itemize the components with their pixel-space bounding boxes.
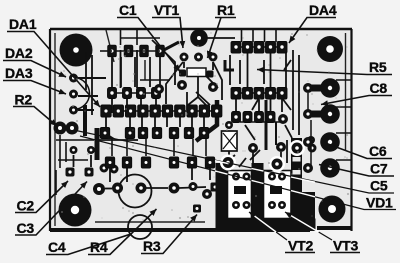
- label DA1: [7, 16, 100, 107]
- pads row E: [100, 128, 208, 139]
- svg-text:VD1: VD1: [366, 195, 393, 211]
- regulator DA1 TO-92 outline: [74, 78, 90, 110]
- wire mid verticals: [86, 52, 287, 163]
- svg-text:C4: C4: [48, 239, 66, 255]
- label DA2: [3, 45, 66, 77]
- svg-text:DA4: DA4: [309, 2, 337, 18]
- svg-text:C6: C6: [369, 143, 387, 159]
- svg-text:C7: C7: [370, 161, 388, 177]
- svg-text:C5: C5: [370, 178, 388, 194]
- scan speckle: [61, 32, 349, 221]
- IC DA4 pads row top: [231, 42, 287, 54]
- label C3: [15, 182, 87, 237]
- capacitor C4 circle at bottom edge: [128, 215, 152, 239]
- pads on pour: [202, 143, 303, 200]
- wire white overlays of VD1 leader over pour: [215, 171, 315, 197]
- pads R2: [54, 122, 79, 135]
- board substrate: [51, 29, 351, 230]
- pads flanking jumper: [179, 70, 214, 78]
- IC DA3 pads long row: [101, 105, 222, 117]
- pads on pour clearance: [220, 140, 305, 172]
- svg-text:R4: R4: [90, 239, 108, 255]
- transistor VT1 pads: [180, 53, 218, 62]
- IC DA4 pads row middle: [231, 88, 287, 100]
- svg-text:VT2: VT2: [288, 238, 313, 254]
- pads C2: [66, 168, 94, 177]
- label C2: [15, 181, 68, 214]
- wire diagonals upper middle: [152, 29, 299, 135]
- label C5: [76, 131, 394, 194]
- svg-text:R3: R3: [143, 238, 161, 254]
- label C7: [319, 161, 394, 177]
- pour clearance slots: [293, 157, 301, 175]
- label R4: [88, 209, 157, 255]
- svg-text:C3: C3: [17, 220, 35, 236]
- wire verticals between IC rows: [106, 50, 282, 128]
- label C1: [117, 2, 180, 72]
- mounting hole TL: [60, 34, 93, 67]
- mounting hole BL: [59, 194, 92, 227]
- label R5: [257, 59, 392, 75]
- label DA4: [289, 2, 337, 43]
- jumper outline near C1: [187, 68, 206, 77]
- pad R3 target: [193, 205, 201, 213]
- svg-text:VT3: VT3: [333, 238, 358, 254]
- svg-text:C1: C1: [119, 2, 137, 18]
- diode VD1 outline: [222, 131, 238, 151]
- pads DA4 lower zone: [278, 114, 317, 153]
- wire thick traces left: [56, 78, 106, 195]
- label C4: [46, 234, 131, 255]
- label VT1: [152, 2, 183, 48]
- wire right side: [308, 80, 351, 165]
- IC DA4 pads row lower: [232, 112, 276, 123]
- pads inside R4 circle: [112, 183, 147, 194]
- svg-text:DA1: DA1: [9, 16, 37, 32]
- pads right of R4: [169, 182, 220, 194]
- pads near VD1: [248, 136, 315, 153]
- label DA3: [3, 65, 66, 94]
- inner copper boundary: [55, 30, 346, 226]
- label R1: [208, 2, 237, 58]
- mounting hole BR: [319, 196, 346, 223]
- svg-text:DA2: DA2: [5, 45, 33, 61]
- pads below jumper: [154, 80, 218, 94]
- regulator DA1 pads: [69, 74, 78, 115]
- label VT3: [285, 212, 360, 254]
- small pads right column: [303, 83, 313, 173]
- pads small above R4: [100, 164, 119, 174]
- pad above VD1: [225, 121, 233, 129]
- pad left of R4: [93, 183, 105, 195]
- wire thick diagonal center: [196, 100, 217, 141]
- label R2: [13, 92, 57, 127]
- label C6: [328, 143, 392, 159]
- svg-text:R2: R2: [15, 92, 33, 108]
- transistor VT2 footprint: [228, 171, 252, 219]
- label VT2: [249, 212, 315, 254]
- IC DA2 pads row top: [108, 45, 165, 57]
- board outline: [50, 29, 352, 231]
- wire bus pads right: [308, 88, 330, 114]
- svg-text:VT1: VT1: [154, 2, 179, 18]
- wire stubs top edge: [121, 30, 277, 45]
- IC DA2 pads row middle: [108, 88, 161, 99]
- mounting hole TR: [317, 36, 343, 62]
- resistor R4 circle outline: [119, 175, 152, 208]
- transistor VT1 body: [190, 29, 208, 47]
- pads left lower: [70, 146, 96, 154]
- label R3: [141, 215, 197, 255]
- transistor VT3 footprint: [264, 171, 292, 219]
- capacitor pads right column: [320, 78, 340, 178]
- svg-text:R5: R5: [369, 59, 387, 75]
- svg-text:C2: C2: [17, 198, 35, 214]
- wire DA4 lower zone: [223, 100, 300, 167]
- pads row D: [105, 157, 214, 168]
- svg-text:R1: R1: [217, 2, 235, 18]
- label C8: [321, 80, 392, 105]
- label VD1: [80, 136, 396, 211]
- wire lower middle: [105, 168, 210, 189]
- svg-text:DA3: DA3: [5, 65, 33, 81]
- wire stubs row E to D: [112, 139, 206, 156]
- ground pour: [216, 138, 316, 231]
- wire white overlays of C5 leader over pour: [215, 161, 315, 183]
- svg-text:C8: C8: [370, 80, 388, 96]
